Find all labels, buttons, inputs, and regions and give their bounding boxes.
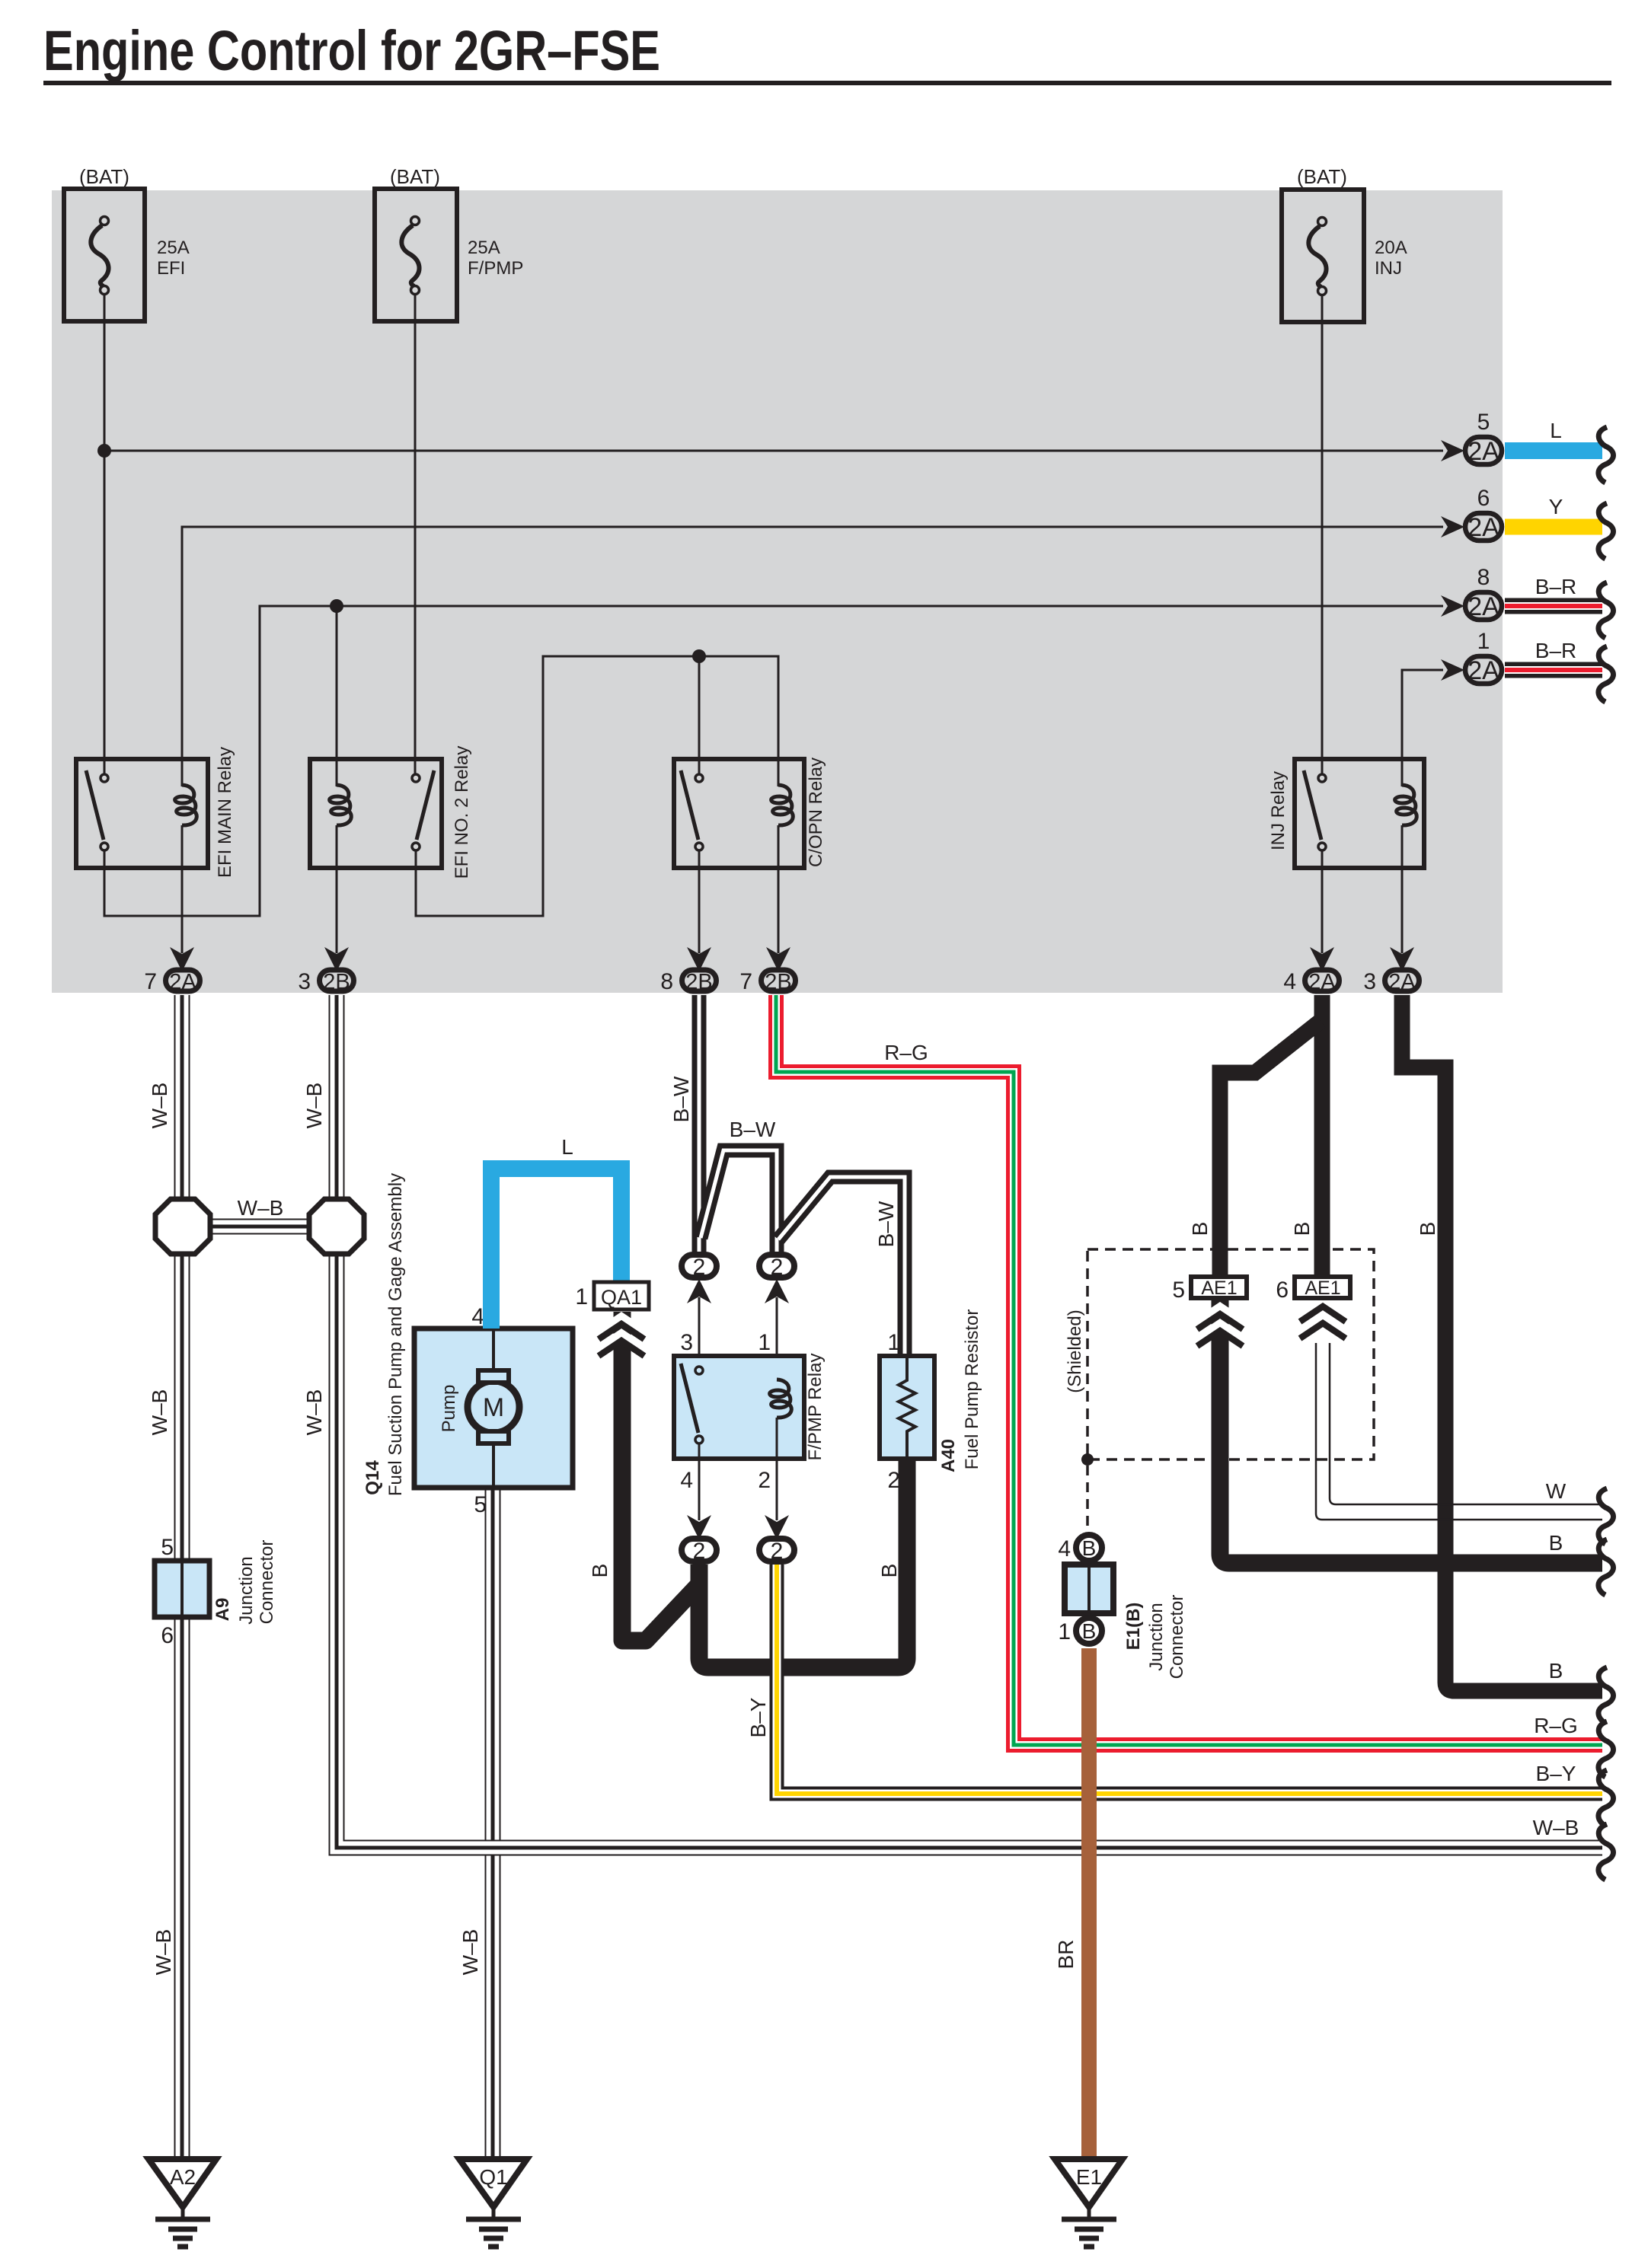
svg-text:2B: 2B: [765, 970, 791, 994]
wire fuse F/PMP to EFI NO.2 relay switch: [414, 295, 417, 774]
svg-text:R–G: R–G: [884, 1041, 928, 1064]
connector 7 2A: [144, 947, 200, 994]
svg-text:6: 6: [1477, 486, 1490, 511]
svg-text:(BAT): (BAT): [1297, 165, 1347, 188]
wire junction to EFI NO.2 relay coil: [336, 606, 338, 786]
svg-text:1: 1: [887, 1330, 900, 1355]
svg-text:5: 5: [1477, 410, 1490, 435]
svg-text:5: 5: [474, 1492, 487, 1517]
connector 8 2A with B-R wire: [1441, 565, 1614, 638]
svg-text:1: 1: [1058, 1619, 1071, 1644]
svg-text:INJ Relay: INJ Relay: [1268, 771, 1289, 850]
connector 3 2B: [298, 947, 353, 994]
svg-text:C/OPN Relay: C/OPN Relay: [806, 758, 826, 867]
svg-text:6: 6: [1276, 1278, 1289, 1303]
wire B from 3 2A to B break row (lower): [1402, 995, 1614, 1723]
svg-text:EFI NO. 2 Relay: EFI NO. 2 Relay: [452, 746, 472, 879]
svg-text:5: 5: [1172, 1278, 1185, 1303]
wire W from AE1 pin 6 to W break row: [1300, 1306, 1614, 1544]
svg-text:B–Y: B–Y: [746, 1697, 770, 1737]
svg-text:BR: BR: [1054, 1940, 1078, 1970]
svg-text:R–G: R–G: [1534, 1714, 1578, 1737]
svg-text:2B: 2B: [685, 970, 712, 994]
svg-text:B: B: [1416, 1222, 1439, 1236]
svg-text:Q14: Q14: [362, 1460, 383, 1495]
connector 5 AE1: [1172, 1277, 1247, 1303]
svg-text:EFI: EFI: [157, 258, 185, 279]
svg-text:W–B: W–B: [1533, 1816, 1579, 1839]
svg-text:B–R: B–R: [1535, 575, 1576, 598]
svg-text:4: 4: [1283, 969, 1296, 994]
svg-text:2A: 2A: [1308, 970, 1336, 994]
fuse 25A EFI: [64, 165, 190, 321]
node junction C/OPN switch tap: [692, 649, 706, 663]
svg-text:B: B: [588, 1564, 612, 1578]
component Q14 fuel suction pump and gage assembly: [362, 1173, 573, 1517]
wire INJ relay coil out to connector 3 2A: [1401, 825, 1404, 953]
svg-text:1: 1: [575, 1284, 588, 1309]
svg-text:Connector: Connector: [1167, 1595, 1187, 1679]
connector 5 2A with L wire: [1441, 410, 1614, 483]
svg-text:E1: E1: [1076, 2165, 1102, 2189]
connector 2 (lower left, F/PMP pin 4): [682, 1515, 717, 1564]
wire INJ relay switch out to connector 4 2A: [1321, 851, 1324, 953]
wire EFI MAIN relay coil out to connector 7 2A: [181, 825, 184, 953]
svg-text:8: 8: [1477, 565, 1490, 590]
wire B-W branch to fuel pump resistor pin 1: [778, 1177, 905, 1356]
wire B from 4 2A to AE1 pin 6: [1290, 995, 1322, 1277]
wire B-Y from F/PMP pin 2 to B-Y break row: [746, 1565, 1614, 1826]
svg-text:F/PMP: F/PMP: [468, 258, 523, 279]
svg-text:8: 8: [660, 969, 673, 994]
svg-text:2B: 2B: [323, 970, 350, 994]
svg-text:W–B: W–B: [148, 1389, 171, 1436]
svg-text:2: 2: [771, 1255, 784, 1280]
svg-text:EFI MAIN Relay: EFI MAIN Relay: [215, 747, 235, 878]
node junction EFI NO.2 relay coil tap: [330, 599, 343, 613]
svg-text:2A: 2A: [1468, 513, 1499, 542]
svg-text:W–B: W–B: [148, 1083, 171, 1129]
svg-text:Connector: Connector: [257, 1540, 277, 1625]
svg-text:B–W: B–W: [730, 1118, 776, 1141]
svg-text:F/PMP Relay: F/PMP Relay: [805, 1354, 826, 1461]
svg-text:B: B: [877, 1564, 901, 1578]
connector 6 AE1: [1276, 1277, 1350, 1303]
svg-text:5: 5: [161, 1535, 174, 1560]
svg-text:M: M: [483, 1393, 504, 1422]
connector 8 2B: [660, 947, 716, 994]
svg-text:Junction: Junction: [1146, 1603, 1167, 1670]
svg-text:2A: 2A: [1388, 970, 1416, 994]
svg-text:Pump: Pump: [439, 1385, 459, 1433]
wire fuse EFI to EFI MAIN relay switch: [104, 295, 106, 774]
connector QA1: [575, 1282, 649, 1309]
svg-text:W–B: W–B: [302, 1389, 326, 1436]
svg-text:Q1: Q1: [479, 2165, 507, 2189]
svg-text:2: 2: [693, 1539, 706, 1564]
wire junction to C/OPN relay switch: [698, 656, 701, 774]
wire F/PMP relay pin 1: [776, 1297, 778, 1381]
connector 6 2A with Y wire: [1441, 486, 1614, 559]
svg-text:20A: 20A: [1375, 238, 1407, 258]
ground Q1: [459, 2159, 527, 2247]
connector 2 (upper left, F/PMP pin 3): [682, 1255, 717, 1303]
connector E1(B) junction connector: [1058, 1535, 1187, 1679]
svg-text:Engine Control for 2GR–FSE: Engine Control for 2GR–FSE: [43, 19, 660, 82]
svg-text:3: 3: [1363, 969, 1376, 994]
wire B from QA1 to fuel pump resistor pin 2: [588, 1312, 907, 1667]
svg-text:7: 7: [739, 969, 752, 994]
svg-text:B–W: B–W: [669, 1076, 693, 1122]
wire W-B from 3 2B to octagon to W-B break row: [302, 995, 1614, 1880]
connector 4 2A: [1283, 947, 1339, 994]
svg-text:3: 3: [680, 1330, 693, 1355]
wire C/OPN relay switch out to connector 8 2B: [698, 851, 701, 953]
wire EFI NO.2 relay switch out to C/OPN relay: [416, 656, 778, 916]
svg-text:B: B: [1549, 1531, 1563, 1555]
svg-text:W: W: [1546, 1479, 1567, 1503]
svg-text:25A: 25A: [157, 238, 190, 258]
wire B from AE1 pin 5 to B break row (upper): [1197, 1298, 1614, 1595]
svg-text:B–Y: B–Y: [1536, 1762, 1576, 1785]
svg-text:6: 6: [161, 1623, 174, 1648]
wire B-W branch to connector 2 (F/PMP pin 1): [701, 1118, 777, 1252]
svg-text:B–R: B–R: [1535, 639, 1576, 662]
svg-text:4: 4: [680, 1468, 693, 1493]
connector 2 (upper right, F/PMP pin 1): [759, 1255, 794, 1303]
svg-text:2: 2: [758, 1468, 771, 1493]
svg-text:A40: A40: [938, 1439, 959, 1472]
junction block background: [52, 190, 1503, 993]
wire bus to connector 2A pin 5: [104, 450, 1443, 452]
svg-text:2A: 2A: [169, 970, 196, 994]
svg-text:W–B: W–B: [458, 1929, 482, 1976]
ground A2: [149, 2159, 216, 2247]
wire W-B from 7 2A to octagon to A9 to A2 ground: [148, 995, 182, 2157]
svg-text:B: B: [1188, 1222, 1212, 1236]
wire C/OPN relay coil out to connector 7 2B: [778, 825, 780, 953]
svg-text:B: B: [1549, 1659, 1563, 1683]
svg-text:W–B: W–B: [302, 1083, 326, 1129]
svg-text:1: 1: [1477, 629, 1490, 654]
svg-text:1: 1: [758, 1330, 771, 1355]
node octagon joint right: [309, 1199, 364, 1254]
wire F/PMP relay pin 2: [776, 1418, 778, 1520]
svg-text:B–W: B–W: [874, 1201, 898, 1247]
svg-text:(BAT): (BAT): [79, 165, 129, 188]
shield box (Shielded): [1065, 1249, 1374, 1529]
svg-text:AE1: AE1: [1201, 1278, 1237, 1299]
svg-text:INJ: INJ: [1375, 258, 1402, 279]
svg-text:L: L: [1550, 419, 1562, 442]
wire F/PMP relay pin 3: [698, 1297, 701, 1367]
wire BR from E1(B) to E1 ground: [1054, 1648, 1089, 2157]
connector 1 2A with B-R wire: [1441, 629, 1614, 702]
svg-text:AE1: AE1: [1305, 1278, 1340, 1299]
motor M pump: [468, 1381, 519, 1433]
svg-text:4: 4: [471, 1304, 484, 1329]
resistor A40 fuel pump resistor: [880, 1309, 982, 1493]
svg-text:A2: A2: [170, 2165, 196, 2189]
node octagon joint left: [155, 1199, 210, 1254]
relay F/PMP Relay: [674, 1330, 826, 1493]
wire R-G from 7 2B to R-G break row: [776, 995, 1614, 1777]
ground E1: [1055, 2159, 1123, 2247]
svg-text:2: 2: [771, 1539, 784, 1564]
svg-text:Y: Y: [1549, 495, 1563, 518]
svg-text:(Shielded): (Shielded): [1065, 1309, 1085, 1392]
svg-text:2A: 2A: [1468, 656, 1499, 685]
fuse 25A F/PMP: [375, 165, 523, 321]
connector 2 (lower right, F/PMP pin 2): [759, 1515, 794, 1564]
svg-text:25A: 25A: [468, 238, 500, 258]
svg-text:(BAT): (BAT): [390, 165, 440, 188]
svg-text:4: 4: [1058, 1536, 1071, 1561]
wire EFI MAIN relay switch out to connector 2A pin 8: [104, 606, 1443, 916]
svg-text:B: B: [1290, 1222, 1314, 1236]
wire EFI NO.2 relay coil out to connector 3 2B: [336, 825, 338, 953]
svg-text:7: 7: [144, 969, 157, 994]
wire EFI MAIN relay coil to connector 2A pin 6: [182, 527, 1443, 786]
svg-text:A9: A9: [212, 1598, 233, 1622]
wire W-B between octagon joints: [206, 1196, 314, 1227]
relay EFI MAIN Relay: [76, 747, 235, 878]
relay EFI NO. 2 Relay: [310, 746, 472, 879]
node junction on EFI fuse wire: [97, 444, 111, 458]
relay INJ Relay: [1268, 759, 1424, 868]
wire INJ relay coil to connector 2A pin 1: [1402, 670, 1443, 786]
svg-text:QA1: QA1: [601, 1286, 642, 1309]
wire B-W from 8 2B to connector 2 (F/PMP pin 3): [669, 995, 699, 1252]
svg-text:2: 2: [693, 1255, 706, 1280]
wire B branch from 4 2A to AE1 pin 5: [1188, 1021, 1321, 1277]
fuse 20A INJ: [1282, 165, 1407, 322]
svg-text:Fuel Suction Pump and Gage Ass: Fuel Suction Pump and Gage Assembly: [385, 1173, 406, 1496]
svg-text:2: 2: [887, 1468, 900, 1493]
svg-text:Junction: Junction: [236, 1556, 257, 1624]
wire fuse INJ to INJ relay switch: [1321, 295, 1324, 774]
svg-text:L: L: [561, 1135, 573, 1159]
connector 3 2A: [1363, 947, 1419, 994]
svg-text:E1(B): E1(B): [1123, 1603, 1144, 1651]
svg-text:B: B: [1082, 1536, 1097, 1560]
svg-text:Fuel Pump Resistor: Fuel Pump Resistor: [962, 1309, 982, 1470]
wire L from pump pin 4 to QA1: [491, 1135, 621, 1329]
wire F/PMP relay pin 4: [698, 1444, 701, 1520]
connector 7 2B: [739, 947, 795, 994]
svg-text:B: B: [1082, 1619, 1097, 1643]
svg-text:2A: 2A: [1468, 592, 1499, 621]
svg-text:W–B: W–B: [238, 1196, 284, 1220]
svg-text:3: 3: [298, 969, 311, 994]
svg-text:2A: 2A: [1468, 437, 1499, 466]
connector A9 junction connector: [155, 1535, 277, 1648]
svg-text:W–B: W–B: [152, 1929, 175, 1976]
relay C/OPN Relay: [674, 758, 826, 868]
wire W-B pump pin 5 to Q1 ground: [458, 1490, 493, 2157]
